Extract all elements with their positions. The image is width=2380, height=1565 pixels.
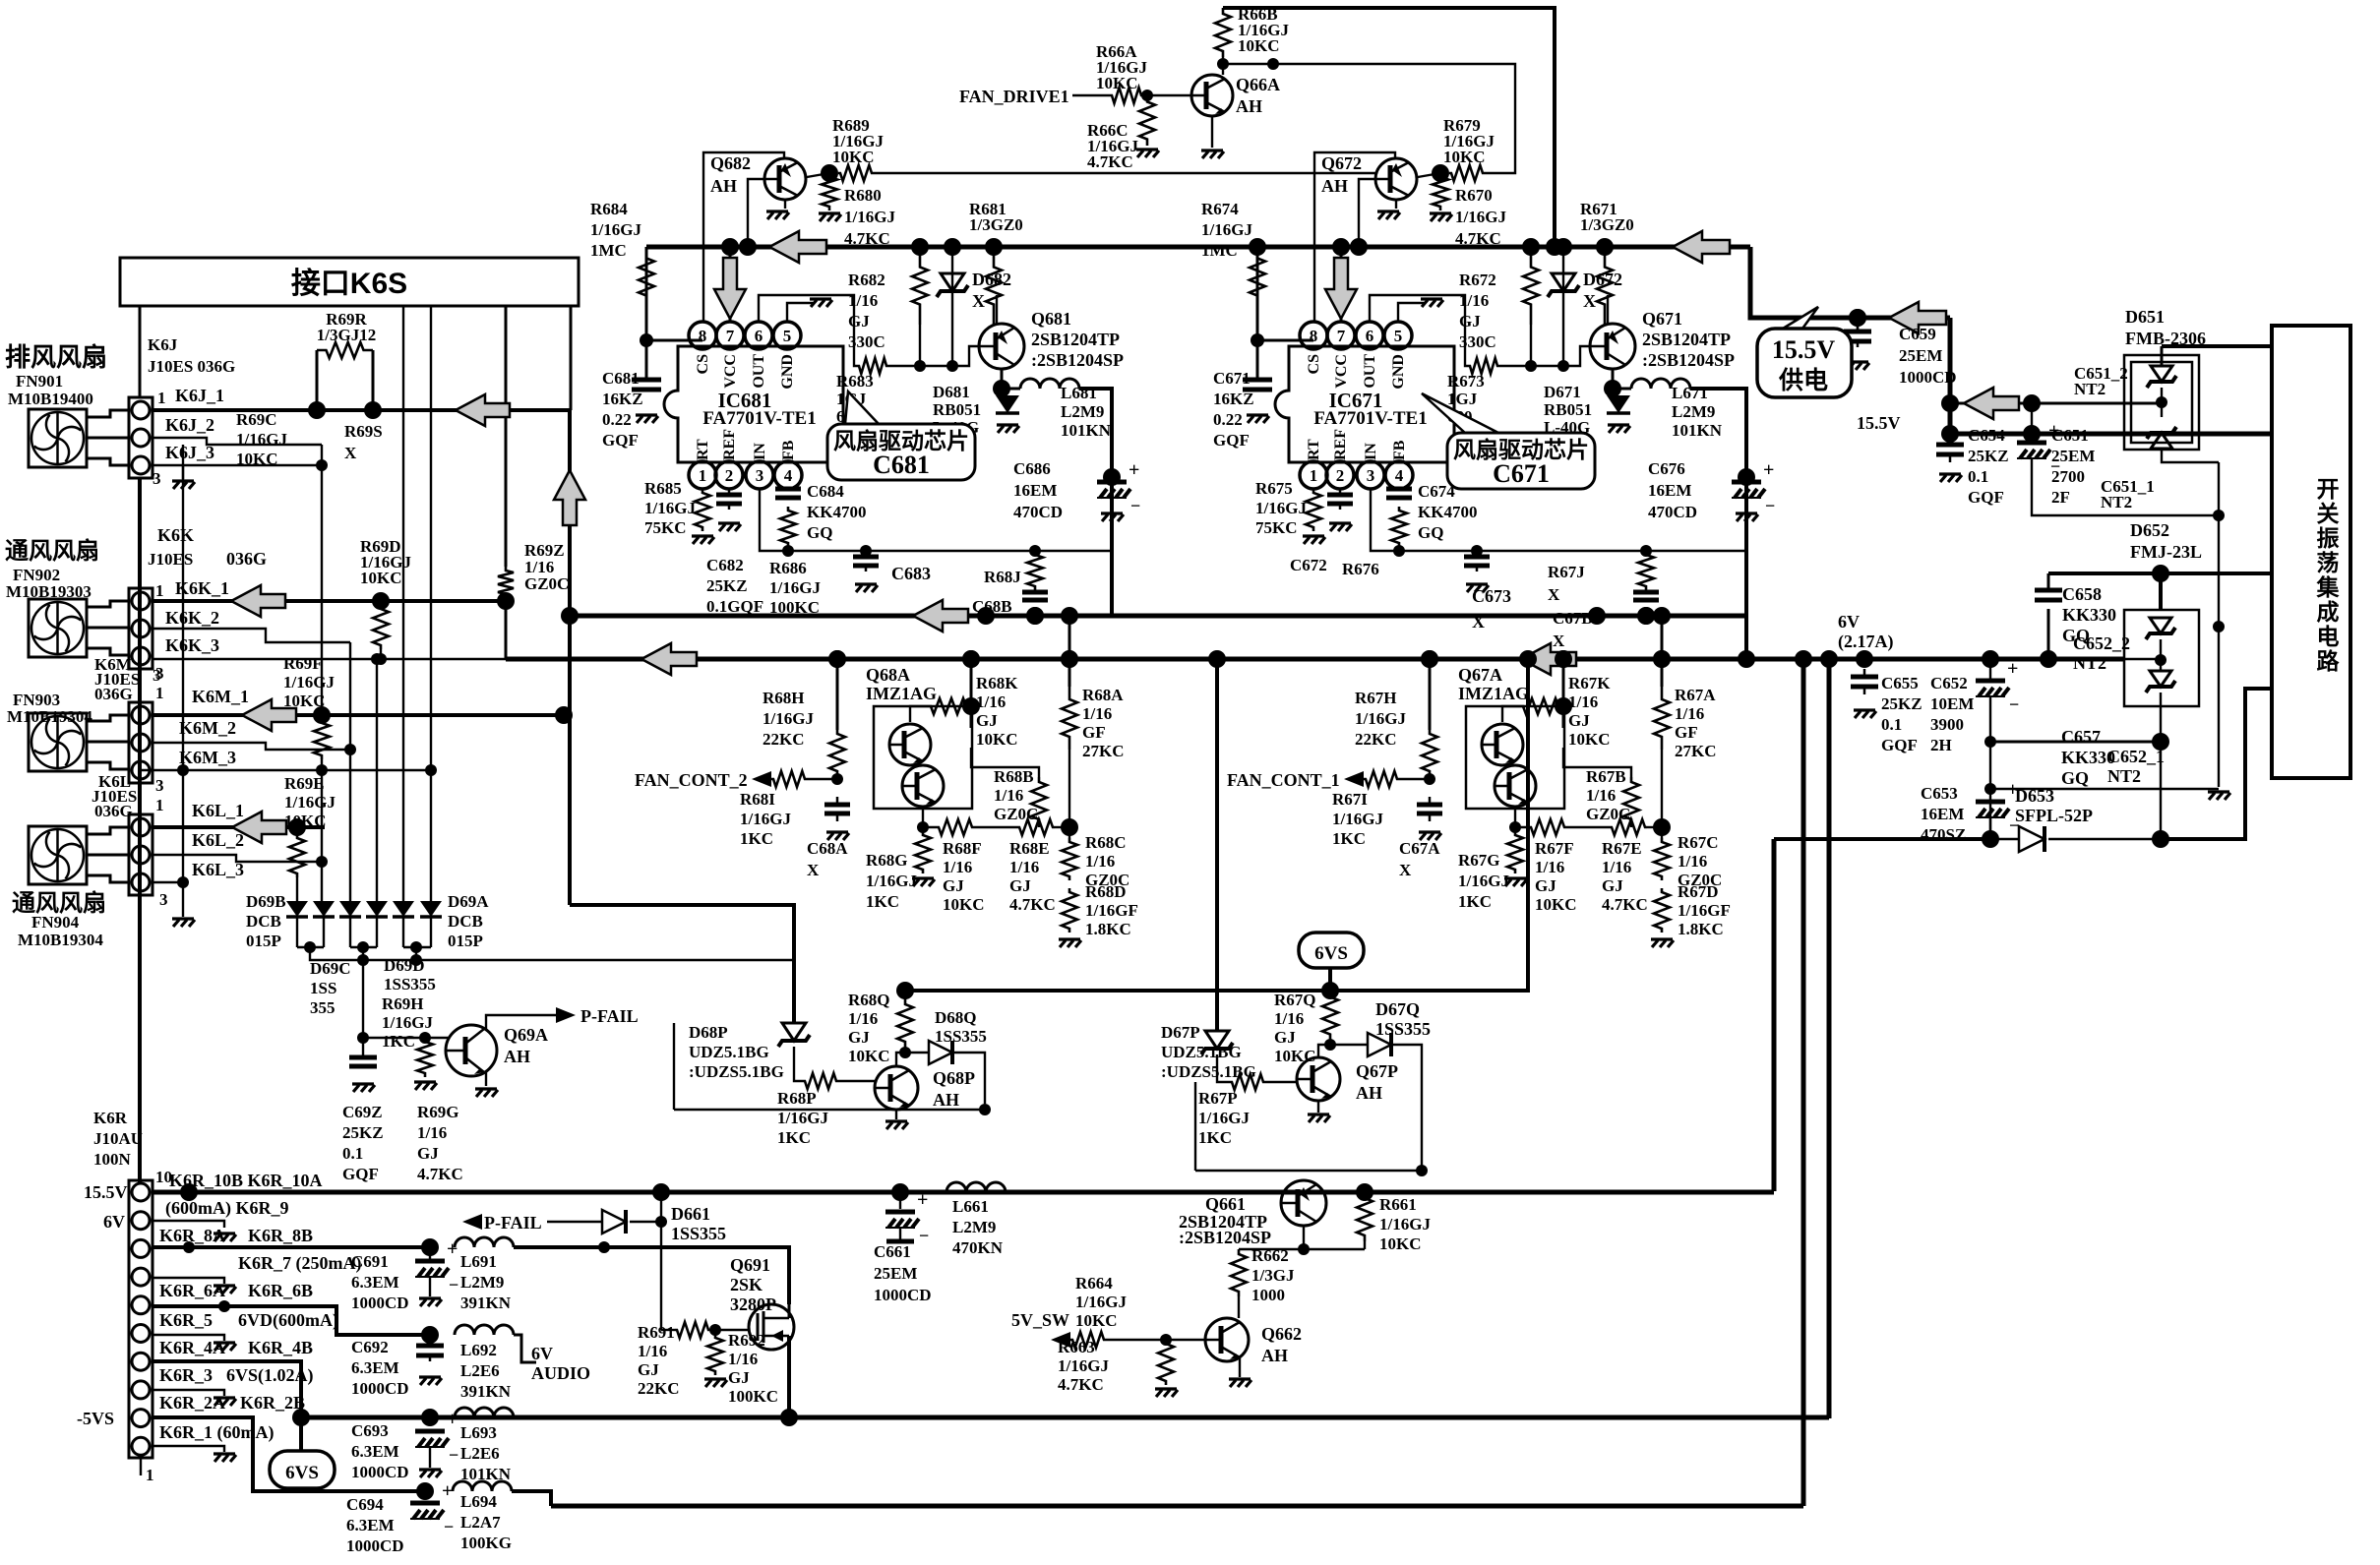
wire C653 lead [1989, 817, 1991, 839]
wire D652 stub [2159, 573, 2163, 610]
junction R68J top R68J [1029, 545, 1041, 557]
svg-text:1/16GJ: 1/16GJ [1332, 810, 1383, 828]
svg-text:036G: 036G [226, 549, 267, 569]
svg-text:1/16GJ: 1/16GJ [382, 1013, 433, 1032]
svg-text:C691: C691 [351, 1252, 389, 1271]
ground C672 [1329, 523, 1352, 531]
junction r682 bottom R682 [914, 360, 926, 372]
arrow P-FAIL in [462, 1214, 482, 1230]
arrow on bus2 right [1521, 643, 1576, 675]
capacitor C658 [2047, 589, 2050, 592]
resistor R686 [780, 507, 796, 547]
wire GND pin IC681 [787, 303, 814, 323]
wire CS column Q672 [1314, 152, 1395, 323]
svg-text:7: 7 [1337, 327, 1346, 345]
junction R68K R68K [962, 697, 980, 715]
junction col R67A [1653, 650, 1671, 668]
junction rail c [891, 1183, 909, 1201]
svg-text:C686: C686 [1013, 459, 1051, 478]
svg-text:GF: GF [1082, 723, 1106, 742]
label FN904 part [31, 913, 80, 932]
label P-FAIL bottom [484, 1213, 542, 1233]
junction K6M_3 b [316, 764, 328, 776]
svg-text:L693: L693 [460, 1423, 497, 1442]
label 6V rail [1838, 612, 1894, 652]
ground K6R_2A [214, 1398, 236, 1406]
junction K6M_3 a [177, 764, 189, 776]
wire K6M_1 net [153, 713, 564, 717]
svg-text:L691: L691 [460, 1252, 497, 1271]
resistor R675 [1306, 489, 1321, 531]
wire Q682 emitter Q682 [784, 200, 786, 209]
svg-text:J10ES: J10ES [148, 550, 193, 569]
label Q681 [1031, 309, 1124, 370]
svg-text:R68J: R68J [984, 568, 1021, 586]
label D67P [1161, 1023, 1256, 1081]
wire fan_cont FAN_CONT_2 [807, 778, 837, 780]
wire pfail line [547, 1221, 602, 1223]
svg-text:R67F: R67F [1535, 839, 1574, 858]
svg-text:2: 2 [1336, 466, 1345, 485]
junction bus1 x1623 [1588, 607, 1606, 625]
mosfet Q691 [749, 1304, 794, 1350]
label 15.5V pin [84, 1182, 128, 1202]
label C651_2 [2074, 364, 2128, 398]
svg-text:K6R_2B: K6R_2B [240, 1393, 305, 1413]
label R672 [1459, 271, 1496, 351]
label R69F [283, 654, 335, 710]
junction R682 R672 [1522, 238, 1540, 256]
resistor R68G [915, 831, 931, 873]
svg-text:2F: 2F [2051, 488, 2070, 507]
svg-text:6: 6 [1366, 327, 1374, 345]
wire top rail [1223, 8, 1555, 247]
svg-text:1/16: 1/16 [417, 1123, 447, 1142]
wire K6S vertical d [570, 306, 573, 410]
wire L681 out L671 [1690, 389, 1746, 659]
svg-text:10KC: 10KC [1238, 36, 1280, 55]
wire C661 [899, 1192, 901, 1209]
svg-text:R672: R672 [1459, 271, 1496, 289]
junction main bus R674 area [1249, 238, 1266, 256]
svg-text:1/16GJ: 1/16GJ [763, 709, 814, 728]
svg-text:集: 集 [2316, 574, 2341, 600]
svg-text:IN: IN [752, 443, 768, 460]
svg-text:1000CD: 1000CD [351, 1294, 409, 1312]
svg-text:2H: 2H [1930, 736, 1952, 754]
wire col mid R68A [1068, 750, 1070, 838]
wire fan_cont FAN_CONT_1 [1399, 778, 1430, 780]
label K6R_7 [238, 1253, 361, 1274]
label K6R_4A [159, 1338, 225, 1357]
label 5V_SW [1011, 1310, 1069, 1330]
svg-text:C67A: C67A [1399, 839, 1440, 858]
capacitor C693 [415, 1429, 445, 1434]
capacitor C655 [1863, 669, 1866, 677]
label R68K [976, 674, 1018, 749]
wire 15.5V bottom rail [153, 1190, 1774, 1195]
label R68A [1082, 686, 1125, 760]
svg-text:R68A: R68A [1082, 686, 1124, 704]
label FAN_CONT_2 [635, 770, 748, 790]
svg-text:1/16GJ: 1/16GJ [1255, 499, 1307, 517]
wire C651 down [2032, 458, 2219, 515]
wire pin2a stub [153, 1390, 224, 1396]
svg-text:C659: C659 [1899, 325, 1936, 343]
junction frame left [979, 1104, 991, 1115]
junction K6J_1 a [308, 401, 326, 419]
wire 6V rail right vert [1827, 659, 1832, 1418]
svg-text:6.3EM: 6.3EM [351, 1273, 399, 1292]
svg-text:AH: AH [504, 1047, 530, 1066]
label K6R_8A [159, 1226, 225, 1245]
svg-text:1/16: 1/16 [976, 692, 1006, 711]
junction bus2 x1087 [1061, 650, 1078, 668]
svg-text:Q68A: Q68A [866, 665, 910, 685]
svg-text:L692: L692 [460, 1341, 497, 1359]
arrow on bus2 left [641, 643, 697, 675]
svg-text:SFPL-52P: SFPL-52P [2015, 806, 2093, 825]
svg-text:GJ: GJ [417, 1144, 439, 1163]
ground right col [2208, 792, 2230, 800]
svg-text:K6K: K6K [157, 525, 194, 545]
wire bus2 into D652 [2124, 658, 2161, 660]
label K6K pin1 [155, 581, 164, 600]
svg-text:X: X [1553, 632, 1565, 650]
junction R68Q [899, 1047, 911, 1058]
wire R662 to Q662 [1238, 1296, 1240, 1318]
svg-text:GQF: GQF [602, 431, 639, 450]
junction d69 bus c [410, 954, 422, 966]
svg-text:16EM: 16EM [1013, 481, 1057, 500]
svg-text:10KC: 10KC [1075, 1311, 1118, 1330]
transistor Q69A [446, 1025, 497, 1076]
label Q67P [1356, 1061, 1398, 1103]
wire Q682 emitter Q672 [1395, 200, 1397, 209]
svg-text:1/16: 1/16 [994, 786, 1023, 805]
svg-text:R661: R661 [1379, 1195, 1417, 1214]
junction r682 bottom R672 [1525, 360, 1537, 372]
label L693 [460, 1423, 512, 1483]
svg-text:1/16GJ: 1/16GJ [1201, 220, 1252, 239]
svg-text:C692: C692 [351, 1338, 389, 1356]
wire col mid R67A [1661, 750, 1663, 838]
label R68Q [848, 991, 890, 1065]
svg-text:R68E: R68E [1009, 839, 1050, 858]
label R67J name [1548, 563, 1585, 604]
arrow 5V_SW [1051, 1332, 1070, 1348]
wire riser top R68H [836, 659, 839, 730]
label R681 [969, 200, 1023, 234]
resistor R69D [373, 605, 389, 649]
svg-text:Q681: Q681 [1031, 309, 1071, 329]
wire Q681 emitter Q671 [1612, 369, 1615, 389]
label K6K pin3 [153, 666, 161, 685]
label K6L [98, 772, 131, 791]
ground C69Z [352, 1084, 375, 1092]
junction VCC IC681 [721, 238, 739, 256]
fan symbol FN902 [29, 599, 87, 657]
wire C658 col [2047, 573, 2050, 590]
wire 15.5V drop [1950, 318, 2272, 434]
connector K6R [129, 1180, 153, 1458]
svg-text:AH: AH [1261, 1346, 1288, 1365]
svg-text:R670: R670 [1455, 186, 1493, 205]
svg-text:GJ: GJ [1009, 876, 1031, 895]
resistor R673 [1468, 358, 1499, 374]
capacitor C67A [1429, 797, 1432, 805]
svg-text:Q67P: Q67P [1356, 1061, 1398, 1081]
wire IN column IC671 [1371, 489, 1746, 551]
label R664 [1075, 1274, 1127, 1330]
wire row -5VS out [512, 1491, 551, 1506]
label D68P [689, 1023, 784, 1081]
label D671 [1544, 383, 1592, 437]
junction R68K bus R67K [1555, 650, 1572, 668]
label net K6L_3 [192, 860, 244, 879]
svg-text:NT2: NT2 [2073, 653, 2106, 673]
label Q69A [504, 1025, 548, 1066]
resistor R684 [639, 254, 654, 300]
wire L681 lead L681 [1002, 388, 1020, 391]
IC top pins IC671 [1300, 322, 1327, 349]
svg-text:101KN: 101KN [1061, 421, 1112, 440]
svg-text:1/3GJ12: 1/3GJ12 [317, 326, 376, 344]
svg-text:10KC: 10KC [1535, 895, 1577, 914]
label 15.5V net [1857, 413, 1901, 433]
svg-text:10KC: 10KC [283, 692, 326, 710]
IC body IC681 [664, 346, 843, 462]
svg-text:D651: D651 [2125, 307, 2165, 327]
svg-text:16KZ: 16KZ [602, 390, 643, 408]
callout 15.5V supply [1783, 307, 1818, 329]
capacitor C686 [1097, 480, 1127, 485]
diode D69 3 [339, 901, 361, 917]
wire bus2 6V rail [506, 657, 2124, 662]
svg-text::2SB1204SP: :2SB1204SP [1031, 350, 1124, 370]
label FN903 part2 [7, 707, 92, 726]
label C651_1 [2101, 477, 2155, 512]
ground K6L pin3 [172, 919, 195, 927]
capacitor C671 [1256, 379, 1259, 382]
svg-text:FB: FB [780, 440, 797, 460]
svg-text:1/3GJ: 1/3GJ [1251, 1266, 1295, 1285]
svg-text:15.5V: 15.5V [1772, 335, 1836, 364]
junction K6K_1 b [497, 592, 515, 610]
label K6R_2B [240, 1393, 305, 1413]
wire K6J_3 net [153, 464, 322, 466]
ground C681 [636, 415, 658, 423]
svg-text:R69E: R69E [284, 774, 325, 793]
resistor R67K [1521, 698, 1560, 714]
diode block D652 [2124, 610, 2199, 706]
ground C673 [1466, 584, 1489, 592]
svg-text:8: 8 [1310, 327, 1318, 345]
svg-text:IN: IN [1363, 443, 1379, 460]
svg-text:UDZ5.1BG: UDZ5.1BG [689, 1043, 769, 1061]
svg-text:1: 1 [155, 796, 164, 814]
label Q671 [1642, 309, 1735, 370]
svg-text:1/16GJ: 1/16GJ [1355, 709, 1406, 728]
wire R67A riser link [1661, 616, 1664, 659]
wire between R68F [974, 826, 1017, 828]
svg-text:5: 5 [1394, 327, 1403, 345]
wire C659 [1857, 318, 1859, 331]
wire riser bot R67H [1429, 775, 1432, 779]
svg-text:C68A: C68A [807, 839, 848, 858]
wire D68P to R68P [794, 1047, 803, 1081]
wire R68K left R68K [910, 706, 929, 722]
svg-text:R69S: R69S [344, 422, 383, 441]
wire C68B C67B [1645, 609, 1647, 616]
ground R692 [704, 1379, 727, 1387]
svg-text:FMJ-23L: FMJ-23L [2130, 542, 2202, 562]
ground Q662 [1229, 1379, 1251, 1387]
label net K6K_3 [165, 635, 219, 655]
capacitor C683 [865, 551, 868, 557]
dual transistor Q67A box [1466, 706, 1564, 809]
svg-text:10KC: 10KC [943, 895, 985, 914]
svg-text:25KZ: 25KZ [706, 576, 748, 595]
label R67B [1586, 767, 1630, 823]
svg-text:Q662: Q662 [1261, 1324, 1302, 1344]
wire fan_drive1 [1072, 94, 1110, 96]
label K6R_3 [159, 1365, 213, 1385]
label R670 [1455, 186, 1506, 248]
svg-text:GND: GND [779, 354, 796, 390]
svg-text:−: − [1765, 496, 1775, 515]
wire link down [1272, 64, 1274, 69]
label D69B [246, 892, 286, 950]
svg-text:1/16: 1/16 [1535, 858, 1564, 876]
svg-text:10KC: 10KC [236, 450, 278, 468]
svg-text:R662: R662 [1251, 1246, 1289, 1265]
wire to col R68E [1055, 826, 1069, 828]
wire K6K_2 net [153, 629, 350, 642]
svg-text:K6L_1: K6L_1 [192, 801, 244, 820]
svg-text:D661: D661 [671, 1204, 710, 1224]
label Q662 [1261, 1324, 1302, 1365]
junction fan_cont FAN_CONT_1 [1424, 773, 1435, 785]
wire pin4a stub [153, 1335, 224, 1341]
label Q682 [710, 153, 751, 196]
ground D671 [1608, 425, 1630, 433]
label D672 [1583, 270, 1622, 311]
wire Q681 emitter Q681 [1001, 369, 1004, 389]
svg-text:R676: R676 [1342, 560, 1379, 578]
svg-text:X: X [972, 291, 985, 311]
svg-text:75KC: 75KC [644, 518, 687, 537]
arrow FAN_CONT_2 [752, 771, 771, 787]
junction R674 C [1251, 333, 1264, 347]
svg-text:1KC: 1KC [1332, 829, 1366, 848]
wire D651 bot [2162, 449, 2219, 462]
zener diode D652 a [2150, 618, 2171, 633]
wire D67Q out [1393, 1045, 1422, 1166]
svg-text:L681: L681 [1061, 384, 1097, 402]
label R68H [763, 689, 814, 749]
ground C686 [1101, 513, 1124, 521]
wire C681 lead C681 [645, 340, 648, 380]
callout fan driver chip C681 [845, 391, 879, 424]
wire K6L_3 gnd stem [182, 882, 184, 917]
wire to D67Q [1330, 1044, 1368, 1046]
wire D652 rail [2048, 572, 2272, 575]
resistor R663 [1158, 1340, 1174, 1385]
junction VCC IC671 [1332, 238, 1350, 256]
junction pfail node [357, 1032, 369, 1044]
ground R680 [819, 213, 841, 221]
svg-text:R67B: R67B [1586, 767, 1626, 786]
svg-text:1/16: 1/16 [638, 1342, 667, 1360]
wire K6J_2 net [153, 438, 322, 445]
wire emitter row [1239, 1248, 1365, 1250]
svg-text:10KC: 10KC [832, 148, 875, 166]
resistor R67P [1230, 1074, 1265, 1090]
wire c69z [362, 1038, 364, 1057]
svg-text:1KC: 1KC [740, 829, 773, 848]
svg-text:OUT: OUT [1362, 354, 1378, 389]
svg-text:C655: C655 [1881, 674, 1919, 692]
svg-text:K6L_2: K6L_2 [192, 830, 244, 850]
wire Q662 emitter [1239, 1357, 1241, 1377]
label R684 [590, 200, 641, 260]
interface box K6S [120, 258, 579, 306]
label R68C [1085, 833, 1129, 889]
junction d69 bus [357, 954, 369, 966]
label FN902 part [13, 566, 60, 584]
label C67B name [1553, 609, 1593, 650]
svg-text:R69G: R69G [417, 1103, 459, 1121]
svg-text:R67I: R67I [1332, 790, 1368, 809]
svg-text:C652_1: C652_1 [2107, 747, 2165, 766]
wire VCC IC671 [1340, 247, 1343, 322]
resistor R662 [1231, 1249, 1247, 1296]
junction frame right [1416, 1165, 1428, 1176]
svg-text:VCC: VCC [722, 354, 739, 389]
wire row 6VD [153, 1306, 430, 1335]
svg-text:5: 5 [783, 327, 792, 345]
label Q661 [1205, 1194, 1246, 1214]
svg-text:R67H: R67H [1355, 689, 1397, 707]
wire Q681 collector Q681 [996, 295, 998, 325]
svg-text:C652: C652 [1930, 674, 1968, 692]
wire bus1 [570, 614, 1746, 619]
svg-text:1/16GJ: 1/16GJ [1379, 1215, 1431, 1234]
svg-text:6VD(600mA): 6VD(600mA) [238, 1310, 338, 1331]
svg-text:GJ: GJ [1274, 1028, 1296, 1047]
ground Q68P [885, 1121, 908, 1129]
svg-text:R673: R673 [1447, 372, 1485, 391]
label R69C [236, 410, 287, 468]
wire R68B R67B [1630, 824, 1632, 827]
capacitor C68A [836, 797, 839, 805]
diode D671 [1607, 395, 1630, 413]
junction 6V c [2040, 650, 2057, 668]
diode D67Q [1368, 1033, 1391, 1056]
svg-text:Q68P: Q68P [933, 1068, 975, 1088]
label R682 [848, 271, 885, 351]
svg-text:10KC: 10KC [976, 730, 1018, 749]
junction R68Q rail [896, 982, 914, 999]
svg-text:1/16GJ: 1/16GJ [283, 673, 335, 692]
IC bottom pins IC681 [689, 461, 716, 489]
svg-text:R69C: R69C [236, 410, 277, 429]
svg-text:1/16: 1/16 [1274, 1009, 1304, 1028]
wire K6K_3 net [153, 658, 506, 660]
zener diode D652 b [2150, 671, 2171, 687]
wire fan2 to K6K pin1 [87, 601, 129, 607]
